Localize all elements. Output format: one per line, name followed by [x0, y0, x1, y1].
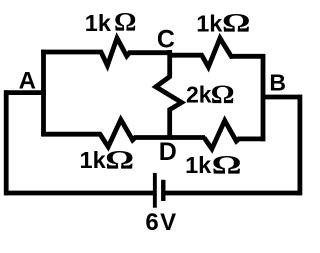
- svg-text:Ω: Ω: [114, 7, 137, 37]
- svg-text:Ω: Ω: [212, 150, 242, 180]
- svg-text:A: A: [19, 67, 36, 94]
- svg-text:B: B: [269, 70, 286, 96]
- svg-text:2k: 2k: [186, 81, 212, 107]
- svg-text:1k: 1k: [196, 10, 223, 36]
- svg-text:C: C: [157, 26, 175, 54]
- svg-text:Ω: Ω: [211, 79, 235, 109]
- svg-text:Ω: Ω: [222, 8, 251, 38]
- svg-text:D: D: [159, 138, 177, 166]
- svg-text:1k: 1k: [185, 152, 212, 178]
- svg-text:1k: 1k: [85, 10, 112, 36]
- svg-text:1k: 1k: [80, 147, 107, 173]
- svg-text:6V: 6V: [145, 209, 177, 236]
- svg-text:Ω: Ω: [105, 144, 134, 174]
